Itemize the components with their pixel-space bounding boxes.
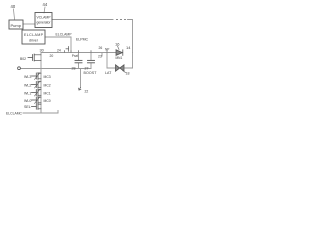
wire latch loop bottom bbox=[107, 67, 133, 69]
box VCLAMP generator U-gen bbox=[35, 13, 52, 28]
svg-text:WL2: WL2 bbox=[24, 83, 31, 87]
svg-text:30: 30 bbox=[40, 49, 44, 53]
junction dots on bus bbox=[65, 51, 108, 53]
svg-text:MC3: MC3 bbox=[44, 75, 51, 79]
svg-text:LAT: LAT bbox=[105, 71, 112, 75]
svg-text:24: 24 bbox=[57, 49, 61, 53]
wire VCLAMP output top bbox=[52, 19, 113, 21]
wire main horizontal bus y53 bbox=[41, 52, 117, 54]
svg-text:40: 40 bbox=[11, 4, 16, 9]
svg-text:ELCLAMC: ELCLAMC bbox=[6, 112, 23, 116]
label 40 bbox=[11, 4, 16, 20]
diode MN1 on latch top bbox=[116, 50, 123, 56]
svg-text:generator: generator bbox=[37, 21, 52, 25]
wire select row bus bottom bbox=[40, 108, 42, 113]
phi terminal bbox=[18, 67, 21, 70]
wire boost down vertical bbox=[80, 69, 82, 88]
select transistor top bbox=[28, 54, 41, 61]
label 18 with leader bbox=[123, 71, 130, 76]
wire top right corner bbox=[128, 20, 133, 53]
svg-text:Psel: Psel bbox=[72, 54, 79, 58]
svg-text:WL0: WL0 bbox=[24, 99, 31, 103]
svg-text:WL1: WL1 bbox=[24, 91, 31, 95]
wire phi boost line y68 bbox=[21, 68, 91, 70]
pass gate bowtie in latch bottom bbox=[116, 65, 125, 71]
svg-text:VCLAMP: VCLAMP bbox=[37, 15, 52, 19]
svg-text:SEL: SEL bbox=[24, 105, 31, 109]
select transistor MS bbox=[32, 104, 42, 110]
box Pump bbox=[9, 20, 23, 29]
label 16 with leader bbox=[115, 42, 120, 50]
svg-text:14: 14 bbox=[126, 45, 131, 50]
label 44 bbox=[43, 2, 48, 13]
svg-text:WL3: WL3 bbox=[24, 75, 31, 79]
svg-text:ELPMC: ELPMC bbox=[76, 37, 89, 41]
wire elclamp driver output bbox=[45, 36, 71, 38]
svg-text:Pump: Pump bbox=[11, 23, 22, 28]
wire boost cap2 stub bbox=[90, 53, 92, 61]
memory cell MC2 bbox=[32, 81, 42, 88]
wire latch loop left vertical bbox=[106, 53, 108, 69]
capacitor 28 bbox=[75, 60, 82, 62]
capacitor 27 bbox=[88, 60, 95, 62]
wire right vertical into latch bbox=[132, 53, 134, 69]
svg-text:MN1: MN1 bbox=[116, 56, 123, 60]
svg-text:MC2: MC2 bbox=[44, 83, 51, 87]
svg-text:B02: B02 bbox=[20, 57, 26, 61]
transistor on ELPMC column bbox=[66, 47, 69, 52]
wire bottom elclamp line bbox=[23, 112, 58, 114]
memory cell MC0 bbox=[32, 97, 42, 104]
wire dashed continuation bbox=[117, 19, 126, 21]
wire stub below bus at node 23 bbox=[101, 53, 103, 57]
svg-text:MC1: MC1 bbox=[44, 91, 51, 95]
svg-text:44: 44 bbox=[43, 2, 48, 7]
arrow end of boost vertical bbox=[79, 88, 81, 91]
svg-text:28: 28 bbox=[72, 67, 76, 71]
svg-text:18: 18 bbox=[126, 72, 130, 76]
svg-text:driver: driver bbox=[29, 39, 39, 43]
svg-text:BOOST: BOOST bbox=[84, 71, 98, 75]
memory cell MC1 bbox=[32, 89, 42, 96]
svg-text:NP: NP bbox=[105, 48, 109, 52]
svg-text:MC0: MC0 bbox=[44, 99, 51, 103]
wire boost cap1 stub bbox=[78, 53, 80, 61]
wire cell column bus bbox=[40, 53, 42, 114]
memory cell MC3 bbox=[32, 73, 42, 80]
svg-text:26: 26 bbox=[99, 46, 103, 50]
svg-text:ELCLAMP: ELCLAMP bbox=[56, 33, 73, 37]
box ELCLAMP driver bbox=[22, 30, 45, 44]
svg-text:ELCLAMP: ELCLAMP bbox=[24, 33, 44, 37]
wire ELPMC vertical bbox=[70, 37, 72, 53]
svg-text:22: 22 bbox=[85, 90, 89, 94]
svg-text:23: 23 bbox=[98, 55, 102, 59]
svg-text:20: 20 bbox=[50, 54, 54, 58]
wire pump to vclamp generator bbox=[23, 23, 35, 25]
